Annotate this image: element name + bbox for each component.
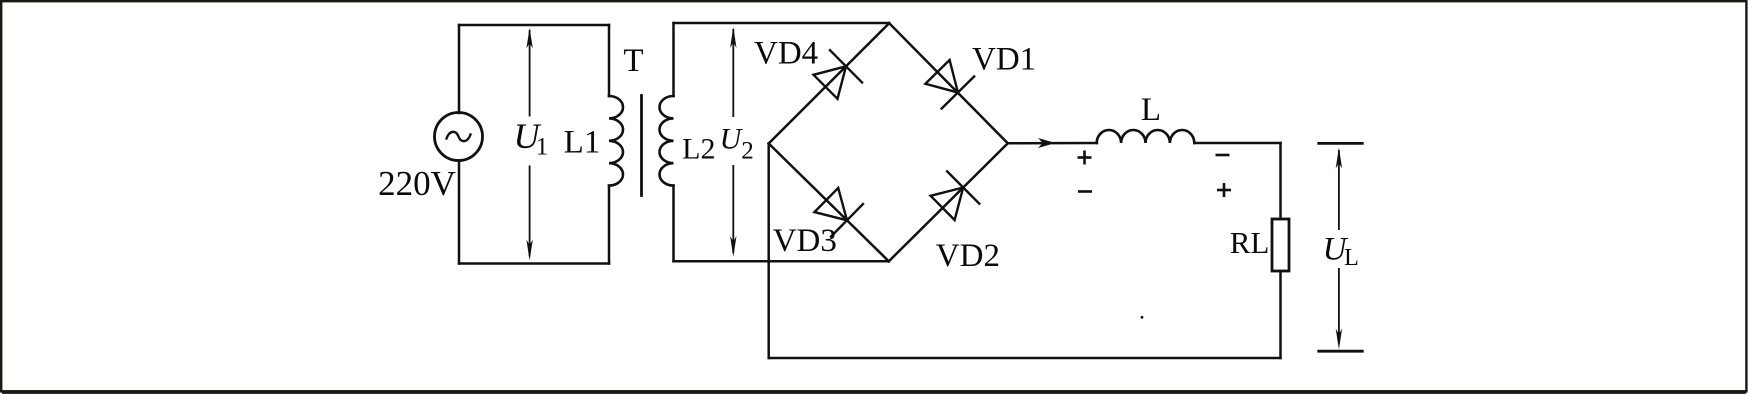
diode VD2: [931, 171, 981, 221]
wire bridge edge top-right: [889, 23, 1008, 143]
svg-text:L: L: [1344, 245, 1359, 271]
inductor L: [1097, 130, 1195, 143]
wire primary top: [459, 24, 609, 27]
wire bottom rail: [769, 357, 1281, 360]
wire primary right lower: [608, 186, 611, 264]
UL voltage arrow: [1336, 148, 1342, 350]
wire right vertical lower: [1279, 271, 1282, 358]
U2 voltage arrow: [730, 27, 736, 257]
wire primary bottom: [459, 262, 609, 265]
svg-text:U: U: [720, 122, 744, 155]
svg-text:VD4: VD4: [754, 35, 818, 71]
svg-text:L1: L1: [564, 125, 601, 161]
svg-text:T: T: [623, 43, 643, 79]
wire output horizontal: [1008, 142, 1097, 145]
svg-text:220V: 220V: [378, 164, 456, 203]
transformer winding L2: [659, 96, 673, 186]
svg-text:VD3: VD3: [773, 223, 837, 259]
wire bridge edge bottom-right: [889, 143, 1008, 261]
diode VD1: [925, 60, 975, 109]
stray dot: [1141, 316, 1144, 319]
svg-text:2: 2: [741, 138, 754, 165]
svg-text:1: 1: [536, 134, 549, 161]
wire right vertical upper: [1279, 143, 1282, 219]
wire secondary bottom: [674, 260, 889, 263]
wire secondary left upper: [672, 23, 675, 96]
svg-text:L: L: [1141, 92, 1161, 128]
polarity - left: [1078, 190, 1092, 193]
wire primary left upper: [458, 25, 461, 113]
wire secondary top: [674, 22, 890, 25]
wire bridge edge left-bottom: [769, 144, 889, 262]
diode VD3: [814, 188, 863, 238]
svg-text:L2: L2: [682, 133, 715, 166]
wire secondary left lower: [672, 186, 675, 262]
transformer winding L1: [609, 96, 623, 186]
U1 voltage arrow: [526, 28, 532, 261]
AC source 220V circle: [435, 113, 483, 161]
diode VD4: [814, 49, 863, 99]
current arrow on output wire: [1038, 138, 1055, 148]
wire primary left lower: [458, 161, 461, 264]
wire return vertical from bridge left node: [767, 144, 770, 359]
svg-text:VD1: VD1: [972, 41, 1036, 77]
wire primary right upper: [608, 25, 611, 96]
svg-text:VD2: VD2: [936, 238, 1000, 274]
wire bridge edge left-top: [769, 23, 890, 143]
UL top tick: [1319, 142, 1363, 145]
polarity - right: [1216, 154, 1230, 157]
AC source tilde: [447, 132, 471, 141]
wire inductor to corner: [1194, 142, 1280, 145]
transformer core: [640, 96, 643, 196]
svg-text:RL: RL: [1230, 225, 1270, 260]
polarity + left: [1078, 151, 1092, 165]
UL bottom tick: [1319, 350, 1363, 353]
resistor RL body: [1272, 219, 1289, 271]
polarity + right: [1217, 183, 1231, 197]
